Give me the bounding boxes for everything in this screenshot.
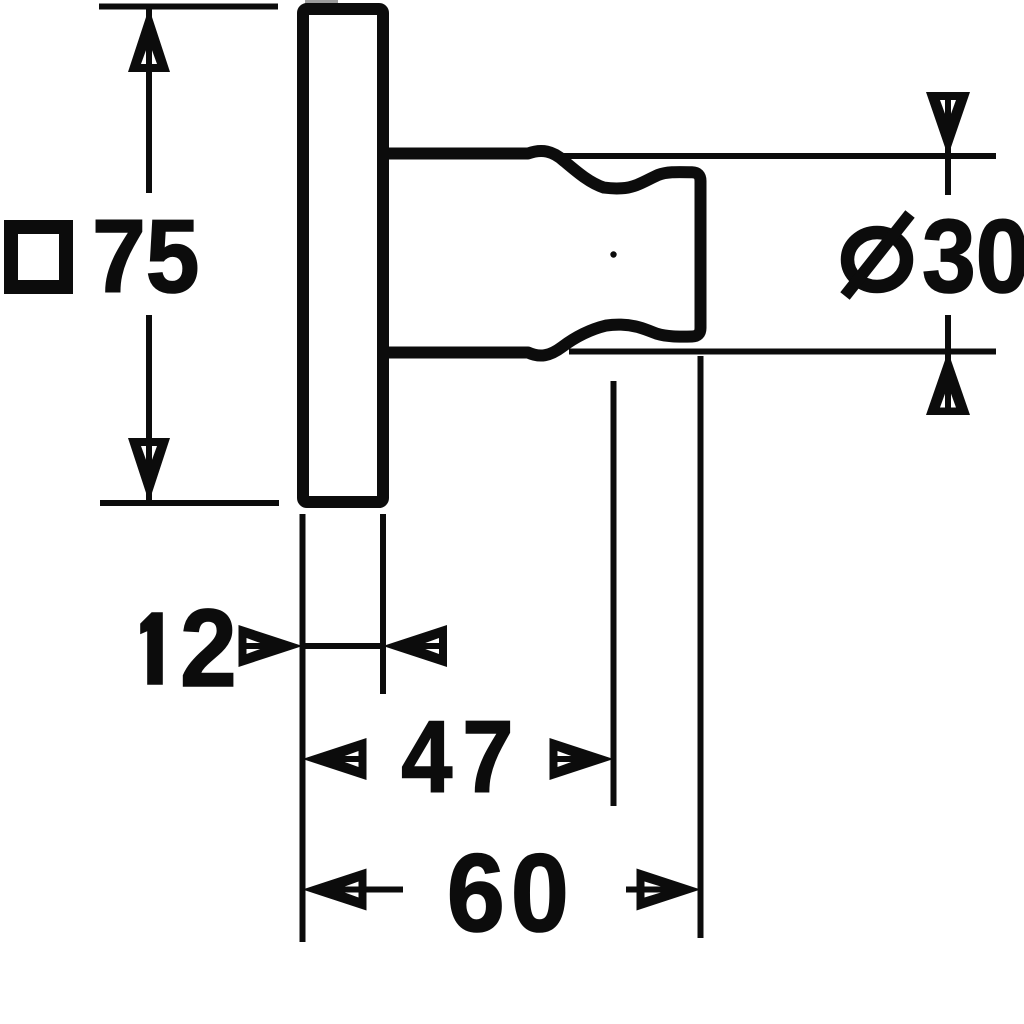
svg-text:30: 30: [922, 199, 1024, 315]
47 dim arrow right: [550, 738, 614, 780]
svg-text:47: 47: [401, 699, 523, 814]
O30 top extension line: [562, 153, 996, 159]
ext line plate left: [300, 514, 306, 942]
svg-text:60: 60: [447, 832, 575, 955]
75 dim line lower segment: [146, 315, 152, 500]
75 dim line upper segment: [146, 9, 152, 193]
svg-text:75: 75: [92, 199, 199, 315]
12 dim line: [303, 643, 384, 649]
75 dim arrow down: [128, 438, 170, 502]
ext line holder center: [611, 381, 617, 806]
center mark dot: [610, 251, 616, 257]
wall plate (side view): [303, 9, 383, 502]
75 dim arrow up: [128, 8, 170, 72]
ext line plate right: [380, 514, 386, 694]
60 dim arrow right: [626, 869, 701, 911]
12 dim arrow left (right side): [383, 625, 447, 667]
square symbol for 75: [11, 227, 66, 287]
O30 bottom extension line: [569, 349, 996, 355]
ext line holder right: [698, 356, 704, 938]
60 dim arrow left: [303, 869, 404, 911]
47 dim arrow left: [303, 738, 367, 780]
75 dim bottom tick: [100, 500, 279, 506]
svg-text:2: 2: [180, 588, 237, 710]
dim text 12 (digit 1 drawn manually): [141, 613, 162, 684]
75 dim top tick: [99, 4, 278, 10]
O30 arrow down (above top line): [926, 92, 970, 195]
12 dim arrow right (left side): [239, 625, 303, 667]
diameter symbol: [845, 214, 910, 296]
gray crop artifact at top: [305, 0, 338, 4]
holder arm and head profile: [383, 151, 701, 356]
O30 arrow up (below bottom line): [926, 315, 970, 415]
